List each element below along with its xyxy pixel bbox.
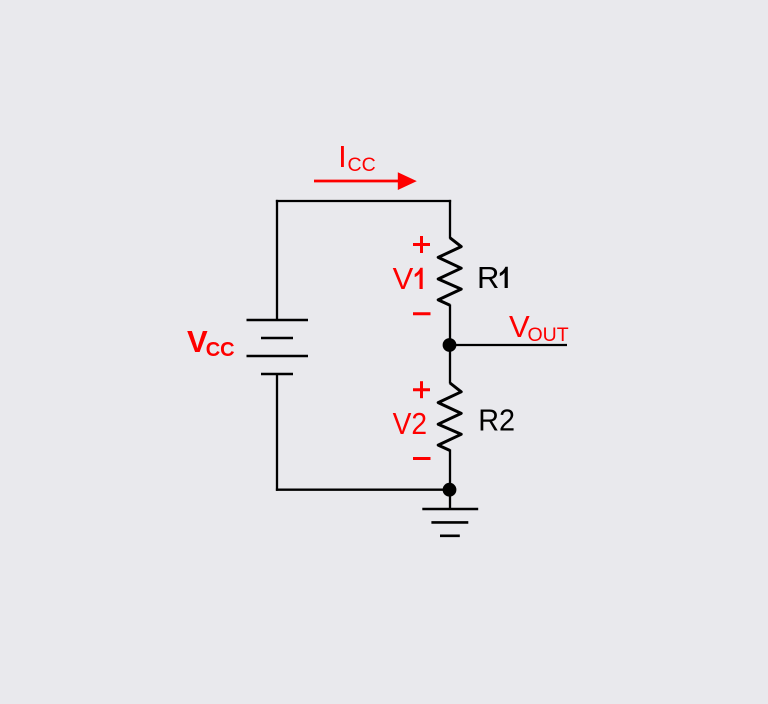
polarity plus V2 [413, 381, 430, 398]
wire left lower [276, 374, 278, 491]
wire left upper [276, 200, 278, 320]
ground node junction dot [443, 483, 457, 497]
polarity minus V2 [413, 457, 431, 460]
wire mid (R1 to R2) [449, 305, 451, 384]
svg-text:OUT: OUT [528, 324, 569, 346]
ground [422, 509, 478, 536]
wire bottom [276, 489, 450, 491]
current arrow ICC [314, 172, 417, 190]
svg-text:I: I [338, 139, 347, 174]
polarity minus V1 [413, 312, 431, 315]
resistor R1 [438, 238, 461, 305]
polarity plus V1 [413, 236, 430, 253]
label V1 [393, 261, 423, 296]
svg-text:R: R [477, 260, 499, 295]
svg-text:R2: R2 [478, 403, 515, 437]
label ICC [338, 139, 376, 176]
label VOUT [509, 309, 569, 346]
resistor R2 [438, 383, 461, 451]
wire lower (R2 to ground) [449, 450, 451, 509]
svg-text:CC: CC [348, 154, 376, 176]
wire top [276, 200, 451, 202]
label R1 [477, 260, 508, 295]
svg-text:CC: CC [206, 339, 235, 361]
wire VOUT [450, 344, 567, 346]
label VCC [187, 324, 235, 361]
wire right upper [449, 200, 451, 239]
svg-text:V: V [393, 261, 414, 296]
node VOUT junction dot [443, 338, 457, 352]
svg-text:V2: V2 [393, 407, 428, 442]
battery VCC [247, 320, 309, 374]
